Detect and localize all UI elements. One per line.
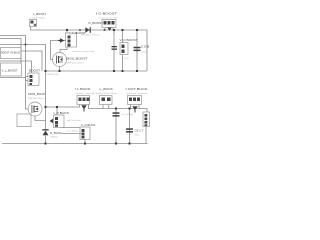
svg-text:L_BOOST: L_BOOST bbox=[33, 12, 46, 16]
svg-text:BOOST VS BUCK: BOOST VS BUCK bbox=[1, 51, 20, 55]
svg-text:470u: 470u bbox=[135, 135, 141, 137]
svg-text:D_BOOST: D_BOOST bbox=[89, 21, 104, 25]
svg-text:I_O BUCK: I_O BUCK bbox=[53, 111, 69, 115]
svg-text:1N5822 Vf 0.5: 1N5822 Vf 0.5 bbox=[81, 34, 101, 36]
svg-text:current sensor (m): current sensor (m) bbox=[72, 50, 94, 53]
svg-text:V_L_BOOST: V_L_BOOST bbox=[2, 69, 18, 73]
svg-text:470uF: 470uF bbox=[141, 52, 148, 54]
svg-text:V_C BOOST: V_C BOOST bbox=[120, 38, 138, 42]
svg-text:current sensor: current sensor bbox=[126, 92, 148, 95]
svg-text:V_O BUCK: V_O BUCK bbox=[67, 131, 79, 133]
svg-text:1.5mH 50m: 1.5mH 50m bbox=[30, 18, 45, 20]
svg-text:MOS_BUCK: MOS_BUCK bbox=[28, 92, 46, 96]
svg-text:C1 1 mF (m): C1 1 mF (m) bbox=[121, 114, 134, 116]
svg-text:IRF150 50m: IRF150 50m bbox=[67, 62, 84, 64]
svg-text:PWM_BOOST: PWM_BOOST bbox=[46, 74, 60, 76]
svg-text:m 0.87: m 0.87 bbox=[122, 58, 129, 60]
svg-text:current sensor: current sensor bbox=[75, 92, 95, 95]
svg-text:IRF150 50m: IRF150 50m bbox=[28, 98, 44, 100]
svg-text:V_O BUCK: V_O BUCK bbox=[81, 123, 96, 127]
svg-text:I OUT BUCK: I OUT BUCK bbox=[126, 87, 148, 91]
svg-text:L_BUCK: L_BUCK bbox=[100, 87, 114, 91]
svg-text:with (m) (land): with (m) (land) bbox=[67, 119, 81, 122]
svg-text:1N5822: 1N5822 bbox=[50, 137, 58, 139]
svg-text:C O B: C O B bbox=[141, 45, 149, 49]
svg-text:D_BUCK: D_BUCK bbox=[50, 131, 62, 135]
svg-text:1.5mH 50mOhm: 1.5mH 50mOhm bbox=[93, 93, 117, 95]
svg-text:BOOST: BOOST bbox=[29, 69, 40, 73]
svg-text:current sensor 0.5m: current sensor 0.5m bbox=[98, 17, 118, 20]
svg-text:I O BOOST: I O BOOST bbox=[96, 12, 117, 16]
svg-text:C3 1 T: C3 1 T bbox=[135, 129, 144, 133]
svg-text:MOS_BOOST: MOS_BOOST bbox=[67, 57, 88, 61]
svg-text:I L BUCK: I L BUCK bbox=[75, 87, 91, 91]
